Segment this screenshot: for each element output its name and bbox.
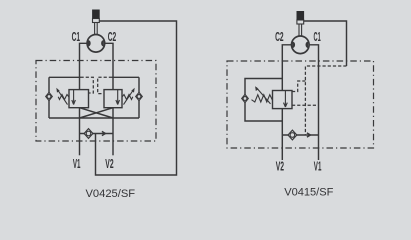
svg-text:V0425/SF: V0425/SF: [86, 188, 136, 200]
svg-text:C1: C1: [314, 30, 321, 44]
svg-text:V1: V1: [73, 157, 81, 171]
svg-text:V0415/SF: V0415/SF: [284, 187, 333, 199]
svg-text:V1: V1: [314, 160, 322, 174]
svg-text:C2: C2: [108, 30, 117, 44]
svg-text:C2: C2: [275, 30, 284, 44]
svg-text:V2: V2: [105, 157, 113, 171]
svg-text:V2: V2: [276, 160, 284, 174]
svg-text:C1: C1: [72, 30, 80, 44]
